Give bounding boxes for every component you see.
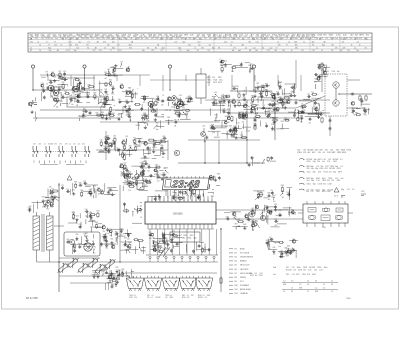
svg-text:GR2: GR2 — [182, 238, 186, 240]
svg-text:10n: 10n — [107, 233, 110, 235]
svg-text:R85: R85 — [128, 106, 131, 108]
svg-text:S201: S201 — [218, 82, 222, 84]
display-to-IC pin wires — [165, 190, 167, 196]
svg-text:S59: S59 — [74, 182, 77, 184]
svg-text:470: 470 — [335, 47, 338, 49]
svg-text:470: 470 — [143, 102, 146, 104]
svg-text:L25: L25 — [256, 221, 259, 223]
svg-text:100u: 100u — [324, 267, 328, 269]
svg-text:L15: L15 — [303, 150, 306, 152]
svg-text:100u: 100u — [145, 38, 149, 40]
svg-text:470: 470 — [323, 184, 326, 186]
svg-text:22k: 22k — [276, 36, 279, 38]
svg-text:8p2: 8p2 — [212, 47, 215, 49]
svg-text:R216: R216 — [182, 297, 186, 299]
svg-text:S63: S63 — [156, 123, 159, 125]
svg-text:S67: S67 — [111, 94, 114, 96]
svg-text:8p2: 8p2 — [178, 47, 181, 49]
svg-text:4k7: 4k7 — [109, 194, 112, 196]
svg-text:B11: B11 — [235, 289, 238, 291]
svg-text:L15: L15 — [256, 36, 259, 38]
svg-text:1k: 1k — [230, 44, 232, 46]
svg-text:L15: L15 — [292, 274, 295, 276]
svg-text:17: 17 — [211, 200, 213, 202]
svg-text:D73: D73 — [122, 140, 125, 142]
svg-text:470: 470 — [278, 44, 281, 46]
svg-text:10n: 10n — [337, 71, 340, 73]
IC left lower cluster — [134, 208, 135, 209]
svg-text:L15: L15 — [276, 38, 279, 40]
svg-text:S17: S17 — [42, 197, 45, 199]
svg-text:8p2: 8p2 — [48, 47, 51, 49]
svg-text:1k: 1k — [316, 47, 318, 49]
svg-text:L15: L15 — [165, 297, 168, 299]
svg-text:0.1: 0.1 — [134, 295, 136, 297]
svg-text:S201: S201 — [155, 38, 159, 40]
svg-text:T21: T21 — [154, 116, 157, 118]
svg-text:10n: 10n — [364, 115, 367, 117]
svg-text:2k2: 2k2 — [58, 93, 61, 95]
svg-text:22k: 22k — [257, 198, 260, 200]
svg-text:2k: 2k — [307, 281, 309, 283]
resistor row — [97, 275, 99, 277]
svg-text:T54: T54 — [78, 81, 81, 83]
svg-text:22k: 22k — [103, 231, 106, 233]
svg-text:0.1: 0.1 — [170, 295, 172, 297]
svg-text:10n: 10n — [140, 176, 143, 178]
svg-text:22k: 22k — [244, 119, 247, 121]
svg-text:10n: 10n — [135, 38, 138, 40]
svg-text:2.2k: 2.2k — [190, 35, 194, 37]
svg-text:470: 470 — [320, 150, 323, 152]
svg-text:TS24: TS24 — [129, 295, 133, 297]
AF output cluster — [249, 211, 255, 217]
svg-text:8V2: 8V2 — [326, 71, 329, 73]
svg-text:T88: T88 — [238, 114, 241, 116]
svg-text:GR2: GR2 — [322, 180, 326, 182]
svg-text:BRAUN: BRAUN — [240, 260, 247, 263]
svg-text:R99: R99 — [93, 93, 96, 95]
svg-text:8p2: 8p2 — [294, 41, 297, 43]
display right column — [209, 184, 210, 185]
svg-text:L96: L96 — [238, 100, 241, 102]
svg-text:22k: 22k — [72, 218, 75, 220]
svg-text:C20: C20 — [41, 83, 44, 85]
svg-text:100: 100 — [271, 196, 274, 198]
svg-text:S27: S27 — [174, 190, 177, 192]
svg-text:T7: T7 — [110, 50, 112, 52]
svg-text:22k: 22k — [124, 244, 127, 246]
svg-text:1n5: 1n5 — [322, 161, 325, 163]
svg-text:1k: 1k — [272, 38, 274, 40]
svg-text:2.2: 2.2 — [161, 50, 163, 52]
svg-text:2.2: 2.2 — [354, 47, 356, 49]
svg-text:10n: 10n — [160, 38, 163, 40]
svg-text:56p: 56p — [105, 247, 108, 249]
output transistor T7 — [333, 82, 339, 88]
svg-text:D36: D36 — [226, 216, 229, 218]
svg-text:C10: C10 — [243, 97, 246, 99]
clock IC1 SAA1061 — [145, 202, 216, 224]
svg-text:R14: R14 — [128, 242, 131, 244]
svg-text:22k: 22k — [144, 167, 147, 169]
svg-text:10n: 10n — [100, 146, 103, 148]
svg-text:10n: 10n — [356, 50, 359, 52]
svg-text:BLAU: BLAU — [240, 248, 245, 251]
svg-text:L67: L67 — [301, 108, 304, 110]
svg-text:S201: S201 — [337, 168, 341, 170]
svg-text:2.2: 2.2 — [245, 47, 247, 49]
svg-text:0.4: 0.4 — [307, 284, 309, 286]
svg-text:C12: C12 — [312, 50, 315, 52]
svg-text:470: 470 — [177, 202, 180, 204]
svg-text:R1: R1 — [331, 50, 333, 52]
svg-text:10n: 10n — [129, 248, 132, 250]
svg-text:C86: C86 — [254, 121, 257, 123]
svg-text:470: 470 — [307, 274, 310, 276]
svg-text:S26: S26 — [163, 136, 166, 138]
svg-text:L30: L30 — [142, 166, 145, 168]
svg-text:R25: R25 — [96, 113, 99, 115]
svg-text:R1: R1 — [319, 38, 321, 40]
svg-text:R1: R1 — [234, 47, 236, 49]
svg-text:L61: L61 — [73, 244, 76, 246]
svg-text:1k: 1k — [288, 41, 290, 43]
svg-text:GR2: GR2 — [182, 295, 185, 297]
IF transformer stage T4 — [148, 101, 154, 107]
svg-text:1n5: 1n5 — [341, 178, 344, 180]
svg-text:56p: 56p — [182, 108, 185, 110]
svg-text:L25: L25 — [189, 187, 192, 189]
svg-text:R66: R66 — [173, 192, 176, 194]
svg-text:2.2: 2.2 — [87, 41, 89, 43]
svg-text:8p2: 8p2 — [187, 50, 190, 52]
svg-text:D2: D2 — [222, 94, 224, 96]
svg-text:R1: R1 — [147, 47, 149, 49]
svg-text:C23: C23 — [56, 96, 59, 98]
svg-text:56p: 56p — [85, 215, 88, 217]
svg-text:0.1: 0.1 — [340, 166, 343, 168]
svg-text:1k: 1k — [351, 44, 353, 46]
svg-text:D12: D12 — [286, 274, 289, 276]
svg-text:S65: S65 — [112, 244, 115, 246]
svg-text:S6: S6 — [80, 83, 82, 85]
svg-text:100u: 100u — [307, 172, 311, 174]
diagonal adjust arrows — [159, 247, 166, 257]
svg-text:470: 470 — [295, 47, 298, 49]
left column parts — [33, 102, 34, 103]
svg-text:T47: T47 — [227, 109, 230, 111]
svg-text:8p2: 8p2 — [129, 44, 132, 46]
svg-text:56p: 56p — [59, 77, 62, 79]
svg-text:T45: T45 — [174, 120, 177, 122]
svg-text:R9: R9 — [161, 175, 163, 177]
svg-text:C35: C35 — [100, 100, 103, 102]
wire: right vertical bus — [220, 228, 222, 292]
volume control stage — [144, 163, 146, 165]
svg-text:10n: 10n — [103, 241, 106, 243]
svg-text:R40: R40 — [281, 191, 284, 193]
svg-text:T68: T68 — [104, 89, 107, 91]
svg-text:L80: L80 — [113, 136, 116, 138]
svg-text:LAUTSPR.: LAUTSPR. — [240, 268, 249, 271]
svg-text:C29: C29 — [135, 178, 138, 180]
svg-text:10n: 10n — [256, 38, 259, 40]
svg-text:2k: 2k — [323, 284, 325, 286]
svg-text:T204: T204 — [284, 36, 288, 38]
svg-text:L15: L15 — [254, 273, 257, 275]
svg-text:10n: 10n — [255, 50, 258, 52]
svg-text:T69: T69 — [360, 99, 363, 101]
svg-text:R94: R94 — [80, 190, 83, 192]
svg-text:S2: S2 — [290, 38, 292, 40]
svg-text:12: 12 — [191, 200, 193, 202]
svg-text:470: 470 — [187, 297, 190, 299]
svg-text:C84: C84 — [76, 215, 79, 217]
svg-text:L74: L74 — [61, 185, 64, 187]
svg-text:4k7: 4k7 — [260, 100, 263, 102]
svg-text:R216: R216 — [223, 38, 227, 40]
svg-text:B12: B12 — [235, 293, 238, 295]
svg-text:56p: 56p — [82, 117, 85, 119]
svg-text:10n: 10n — [279, 88, 282, 90]
svg-text:TS24: TS24 — [187, 238, 191, 240]
svg-text:R79: R79 — [49, 191, 52, 193]
svg-text:4k7: 4k7 — [149, 36, 152, 38]
svg-text:2.2k: 2.2k — [343, 35, 347, 37]
svg-text:4k7: 4k7 — [154, 147, 157, 149]
svg-text:2k2: 2k2 — [93, 253, 96, 255]
bridge rectifier GR1 — [84, 243, 92, 251]
svg-text:R39: R39 — [102, 272, 105, 274]
svg-text:R216: R216 — [324, 172, 328, 174]
svg-text:1n5: 1n5 — [329, 172, 332, 174]
svg-text:T75: T75 — [61, 95, 64, 97]
vertical feed x120 — [119, 185, 121, 262]
svg-text:8p2: 8p2 — [312, 41, 315, 43]
svg-text:T83: T83 — [256, 83, 259, 85]
svg-text:C12: C12 — [78, 41, 81, 43]
svg-text:R44: R44 — [188, 96, 191, 98]
svg-text:4k7: 4k7 — [90, 195, 93, 197]
svg-text:2k2: 2k2 — [224, 67, 227, 69]
svg-text:100: 100 — [311, 98, 314, 100]
svg-text:R34: R34 — [281, 121, 284, 123]
svg-text:L15: L15 — [331, 180, 334, 182]
components between display and IC — [159, 195, 161, 197]
svg-text:D66: D66 — [76, 99, 79, 101]
svg-text:T69: T69 — [279, 210, 282, 212]
svg-text:D12: D12 — [327, 152, 330, 154]
svg-text:1.2: 1.2 — [283, 281, 285, 283]
output transistor T8 — [333, 100, 339, 106]
svg-text:C12: C12 — [197, 41, 200, 43]
svg-text:D86: D86 — [234, 101, 237, 103]
svg-text:C20: C20 — [123, 163, 126, 165]
svg-text:10n: 10n — [101, 118, 104, 120]
svg-text:B4: B4 — [235, 261, 237, 263]
svg-text:2.2k: 2.2k — [327, 161, 330, 163]
svg-text:C15: C15 — [214, 92, 217, 94]
svg-text:22k: 22k — [314, 270, 317, 272]
svg-text:C56: C56 — [75, 234, 78, 236]
svg-text:C318: C318 — [297, 152, 302, 154]
svg-text:D77: D77 — [42, 88, 45, 90]
svg-text:C12: C12 — [199, 38, 202, 40]
svg-text:R1: R1 — [208, 50, 210, 52]
svg-text:T42: T42 — [168, 96, 171, 98]
svg-text:T72: T72 — [242, 113, 245, 115]
svg-text:1k: 1k — [185, 38, 187, 40]
svg-text:R98: R98 — [287, 192, 290, 194]
svg-text:100: 100 — [273, 253, 276, 255]
note symbol 5 — [299, 183, 304, 184]
driver transistor TD5 — [195, 278, 212, 289]
wire: AF to amp — [105, 131, 107, 160]
svg-text:2k: 2k — [283, 291, 285, 293]
svg-text:B3: B3 — [235, 257, 237, 259]
svg-text:D24: D24 — [72, 212, 75, 214]
svg-text:S2: S2 — [312, 44, 314, 46]
svg-text:56p: 56p — [157, 102, 160, 104]
svg-text:4k7: 4k7 — [105, 78, 108, 80]
svg-text:1k: 1k — [60, 44, 62, 46]
svg-text:C318: C318 — [317, 267, 321, 269]
svg-text:R1: R1 — [197, 50, 199, 52]
note symbol 1 — [299, 159, 304, 160]
svg-text:D41: D41 — [315, 107, 318, 109]
AF preamp cluster — [266, 115, 268, 117]
svg-text:T204: T204 — [302, 274, 306, 276]
CN1 pins — [306, 201, 308, 204]
svg-text:D27: D27 — [59, 71, 62, 73]
svg-text:C12: C12 — [269, 47, 272, 49]
svg-text:0.1: 0.1 — [152, 295, 154, 297]
svg-text:470: 470 — [69, 44, 72, 46]
svg-text:C318: C318 — [298, 270, 302, 272]
svg-text:B8: B8 — [235, 277, 237, 279]
svg-text:ORANGE: ORANGE — [240, 292, 249, 295]
svg-text:0.1: 0.1 — [323, 152, 326, 154]
svg-text:D81: D81 — [144, 179, 147, 181]
svg-text:S201: S201 — [307, 184, 311, 186]
oscillator adjust parts — [117, 280, 119, 282]
wire: secondary feeds — [54, 225, 64, 227]
svg-text:56p: 56p — [194, 238, 197, 240]
svg-text:T96: T96 — [88, 244, 91, 246]
svg-text:L15: L15 — [318, 152, 321, 154]
svg-text:10n: 10n — [84, 36, 87, 38]
svg-text:L16: L16 — [109, 188, 112, 190]
svg-text:2.2k: 2.2k — [336, 35, 340, 37]
svg-text:8V2: 8V2 — [296, 274, 299, 276]
svg-text:L36: L36 — [271, 101, 274, 103]
svg-text:L92: L92 — [270, 238, 273, 240]
svg-text:TS24: TS24 — [303, 267, 307, 269]
svg-text:L39: L39 — [78, 116, 81, 118]
svg-text:T14: T14 — [240, 135, 243, 137]
svg-text:T10: T10 — [311, 92, 314, 94]
svg-text:T60: T60 — [49, 187, 52, 189]
svg-text:C20: C20 — [274, 204, 277, 206]
svg-text:B2: B2 — [235, 253, 237, 255]
svg-text:4k7: 4k7 — [310, 38, 313, 40]
svg-text:56p: 56p — [166, 38, 169, 40]
svg-text:8V2: 8V2 — [122, 36, 125, 38]
svg-text:10n: 10n — [81, 92, 84, 94]
svg-text:C46: C46 — [100, 140, 103, 142]
below-IC component row — [154, 244, 156, 246]
svg-text:S56: S56 — [254, 123, 257, 125]
svg-text:C51: C51 — [251, 224, 254, 226]
switch contact ticks — [33, 161, 35, 163]
svg-text:L85: L85 — [177, 196, 180, 198]
driver transistor TD1 — [126, 278, 143, 289]
svg-text:R35: R35 — [236, 86, 239, 88]
svg-text:470: 470 — [129, 47, 132, 49]
svg-text:TS24: TS24 — [346, 150, 351, 152]
svg-text:R75: R75 — [268, 193, 271, 195]
svg-text:S20: S20 — [111, 284, 114, 286]
svg-text:1n5: 1n5 — [325, 150, 328, 152]
svg-text:SAA1061: SAA1061 — [173, 213, 183, 216]
antenna A1 — [31, 65, 34, 68]
svg-text:MP3: MP3 — [213, 82, 217, 84]
svg-text:4k7: 4k7 — [179, 101, 182, 103]
svg-text:2.2k: 2.2k — [91, 38, 94, 40]
svg-text:10n: 10n — [295, 44, 298, 46]
svg-text:D23: D23 — [161, 151, 164, 153]
svg-text:56p: 56p — [311, 168, 314, 170]
svg-text:D99: D99 — [111, 86, 114, 88]
svg-text:C12: C12 — [99, 50, 102, 52]
right bus resistor — [220, 277, 222, 278]
svg-text:T59: T59 — [227, 116, 230, 118]
svg-text:L15: L15 — [229, 36, 232, 38]
svg-text:D12: D12 — [260, 273, 263, 275]
svg-text:1n5: 1n5 — [339, 38, 342, 40]
svg-text:D12: D12 — [350, 38, 353, 40]
svg-text:L60: L60 — [237, 123, 240, 125]
svg-text:T7: T7 — [48, 44, 50, 46]
svg-text:12: 12 — [331, 281, 333, 283]
svg-text:470: 470 — [103, 41, 106, 43]
svg-text:1n5: 1n5 — [239, 36, 242, 38]
svg-text:S2: S2 — [118, 44, 120, 46]
switch interconnect dashes — [33, 151, 90, 153]
svg-text:R35: R35 — [167, 117, 170, 119]
svg-text:R216: R216 — [42, 36, 46, 38]
svg-text:100: 100 — [238, 118, 241, 120]
svg-text:1k: 1k — [37, 41, 39, 43]
svg-text:L15: L15 — [311, 191, 314, 193]
svg-text:GR2: GR2 — [337, 180, 341, 182]
svg-text:1n5: 1n5 — [335, 38, 338, 40]
svg-text:100: 100 — [161, 105, 164, 107]
svg-text:100: 100 — [164, 174, 167, 176]
svg-text:2.2k: 2.2k — [308, 270, 311, 272]
IF amp stage — [125, 102, 127, 104]
svg-text:470: 470 — [325, 168, 328, 170]
svg-text:L15: L15 — [204, 38, 207, 40]
svg-text:4k7: 4k7 — [115, 286, 118, 288]
note symbol 2 — [299, 166, 304, 167]
svg-text:8p2: 8p2 — [182, 41, 185, 43]
svg-text:T99: T99 — [230, 131, 233, 133]
svg-text:Vss: Vss — [273, 274, 276, 276]
preset potentiometers fan — [55, 261, 70, 275]
svg-text:L15: L15 — [325, 38, 328, 40]
